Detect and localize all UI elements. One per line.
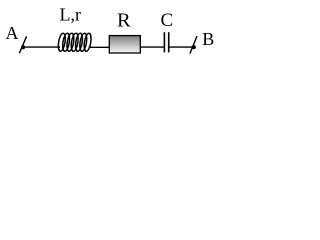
wire capacitor to B (170, 46, 193, 48)
svg-text:R: R (117, 10, 131, 32)
terminal B dot (192, 45, 196, 49)
resistor R body (109, 36, 140, 53)
svg-text:A: A (6, 23, 19, 43)
terminal A tick (19, 36, 26, 53)
wire resistor to capacitor (141, 46, 165, 48)
svg-text:C: C (161, 10, 174, 31)
wire A to inductor (24, 46, 60, 48)
terminal A dot (21, 45, 25, 49)
capacitor C right plate (168, 32, 170, 52)
svg-text:B: B (202, 29, 214, 49)
wire inductor to resistor (89, 46, 111, 48)
capacitor C left plate (163, 32, 165, 52)
inductor L coil (57, 33, 92, 51)
svg-text:L,r: L,r (60, 5, 82, 25)
terminal B tick (190, 36, 197, 54)
